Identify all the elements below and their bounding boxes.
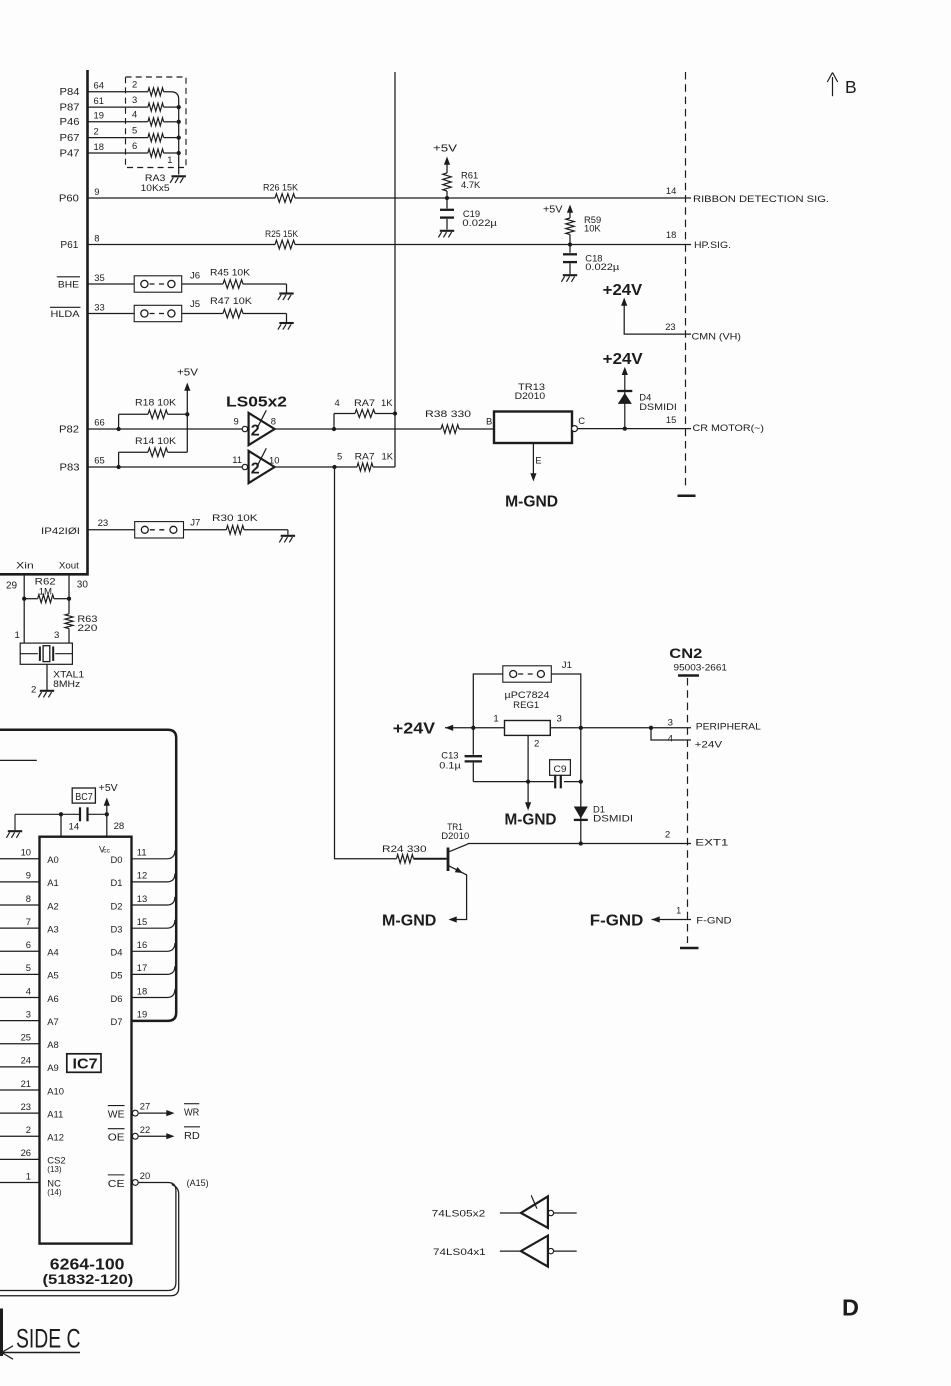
svg-text:5: 5 bbox=[337, 451, 342, 462]
net F-GND pin bbox=[696, 915, 732, 926]
svg-text:Xin: Xin bbox=[16, 561, 34, 572]
svg-text:P47: P47 bbox=[60, 148, 80, 159]
svg-text:2: 2 bbox=[534, 738, 539, 749]
label R47 10K bbox=[210, 295, 253, 306]
pin 20 of IC7 bbox=[140, 1170, 150, 1181]
net (A15) bbox=[187, 1177, 209, 1188]
svg-text:29: 29 bbox=[6, 581, 18, 592]
pin label CE bbox=[108, 1175, 125, 1190]
pin label CS2 (13) bbox=[47, 1154, 65, 1174]
wire address pin 7 bbox=[0, 927, 40, 929]
pin 23 CMN bbox=[665, 321, 675, 332]
pin 2 EXT1 bbox=[665, 829, 670, 840]
svg-text:D3: D3 bbox=[111, 923, 123, 934]
svg-text:D2: D2 bbox=[111, 900, 123, 911]
pin 18 of P47 bbox=[94, 141, 104, 152]
bar section boundary end bbox=[678, 494, 696, 497]
wire P61 to connector pin 18 bbox=[88, 244, 692, 246]
svg-text:7: 7 bbox=[26, 916, 31, 927]
svg-text:Xout: Xout bbox=[59, 561, 79, 572]
bar page edge bbox=[0, 1309, 3, 1357]
pin 1 of REG1 bbox=[493, 714, 498, 725]
node P87 bbox=[60, 103, 80, 114]
svg-text:5: 5 bbox=[132, 124, 137, 135]
label IP42I01 bbox=[41, 526, 80, 536]
svg-text:16: 16 bbox=[137, 939, 147, 950]
wire P87 to RA3 bbox=[88, 106, 179, 108]
net F-GND arrow bbox=[590, 912, 644, 929]
label C9 box bbox=[550, 760, 571, 776]
svg-text:RIBBON DETECTION SIG.: RIBBON DETECTION SIG. bbox=[693, 193, 829, 204]
net M-GND of TR13 bbox=[505, 493, 558, 510]
label IC7 box bbox=[67, 1054, 101, 1073]
wire address pin 21 bbox=[0, 1089, 40, 1091]
net WR bbox=[184, 1104, 200, 1119]
IC U IC7 6264 SRAM outline bbox=[40, 837, 132, 1244]
svg-text:26: 26 bbox=[21, 1147, 31, 1158]
resistor RA3 element 2 bbox=[148, 88, 164, 96]
junction RA3 common P46 bbox=[177, 120, 181, 124]
svg-text:P87: P87 bbox=[60, 103, 80, 114]
svg-text:C9: C9 bbox=[554, 764, 567, 775]
svg-text:8: 8 bbox=[271, 416, 276, 427]
svg-text:P60: P60 bbox=[59, 194, 80, 205]
resistor RA3 element 4 bbox=[148, 118, 164, 126]
op-amp inverter U2a 74LS05 bbox=[242, 410, 274, 445]
svg-text:220: 220 bbox=[77, 623, 97, 634]
ground C18 bbox=[561, 275, 577, 282]
svg-text:1: 1 bbox=[26, 1170, 31, 1181]
svg-text:A5: A5 bbox=[47, 970, 58, 981]
label R24 330 bbox=[382, 843, 427, 854]
svg-text:2: 2 bbox=[94, 125, 99, 136]
svg-text:P84: P84 bbox=[60, 87, 81, 98]
jumper J7 bbox=[135, 522, 184, 538]
svg-text:BHE: BHE bbox=[58, 279, 79, 290]
pin 6 of RA3 bbox=[132, 140, 137, 151]
svg-text:P46: P46 bbox=[60, 117, 81, 128]
wire address pin 8 bbox=[0, 904, 40, 906]
diode D1 DSMIDI bbox=[574, 807, 588, 820]
pin label D6 bbox=[111, 993, 123, 1004]
wire stub upper left bbox=[0, 759, 37, 761]
svg-text:9: 9 bbox=[94, 186, 99, 197]
junction pin14 BC7 bbox=[59, 812, 63, 816]
junction R18 +5V bbox=[185, 412, 189, 416]
op-amp inverter U2b 74LS05 bbox=[242, 448, 274, 483]
wire +24V to connector pin 23 bbox=[621, 298, 691, 335]
svg-text:3: 3 bbox=[668, 717, 673, 728]
svg-text:RA7: RA7 bbox=[355, 451, 375, 462]
wire U2a output to R38 bbox=[275, 428, 441, 430]
label LS05x2 bbox=[226, 393, 287, 410]
pin 9 of inverter U2a bbox=[234, 416, 239, 427]
pin 28 of IC7 bbox=[114, 821, 125, 832]
resistor R14 10K bbox=[148, 448, 168, 457]
marker arrow B bbox=[827, 73, 837, 97]
svg-text:EXT1: EXT1 bbox=[695, 837, 728, 848]
svg-text:23: 23 bbox=[665, 321, 675, 332]
wire P47 to RA3 bbox=[88, 152, 179, 154]
wire data pin 16 to bus bbox=[132, 943, 175, 951]
label R30 10K bbox=[212, 512, 259, 523]
pin 15 CR MOTOR bbox=[666, 414, 676, 425]
svg-text:CMN (VH): CMN (VH) bbox=[692, 330, 742, 341]
junction RA3 common P87 bbox=[177, 105, 181, 109]
wire R61 to P60 bbox=[446, 191, 448, 198]
svg-text:1: 1 bbox=[15, 630, 20, 641]
svg-text:8MHz: 8MHz bbox=[53, 679, 80, 690]
power +5V for R59 bbox=[543, 205, 573, 219]
pin 3 PERIPHERAL bbox=[668, 717, 673, 728]
svg-text:A9: A9 bbox=[47, 1062, 58, 1073]
svg-text:2: 2 bbox=[251, 460, 260, 477]
ground XTAL1 bbox=[38, 691, 54, 698]
svg-text:A2: A2 bbox=[47, 900, 58, 911]
svg-text:23: 23 bbox=[21, 1101, 31, 1112]
ground C19 bbox=[438, 231, 454, 238]
pin label A10 bbox=[47, 1085, 64, 1096]
label 5 RA7 1K bbox=[337, 451, 394, 462]
label R18 10K bbox=[135, 397, 177, 408]
power +24V output bbox=[393, 721, 436, 738]
wire OE to RD bbox=[132, 1133, 174, 1139]
pin label D0 bbox=[111, 854, 123, 865]
op-amp legend 74LS05 symbol bbox=[500, 1195, 577, 1228]
svg-text:66: 66 bbox=[94, 417, 104, 428]
net CMN (VH) bbox=[692, 330, 742, 341]
node P67 bbox=[60, 133, 80, 144]
svg-text:D1: D1 bbox=[111, 877, 123, 888]
pin 15 of IC7 bbox=[137, 916, 147, 927]
svg-text:8: 8 bbox=[94, 233, 99, 244]
svg-text:D6: D6 bbox=[111, 993, 123, 1004]
wire address pin 6 bbox=[0, 950, 40, 952]
label uPC7824 REG1 bbox=[505, 689, 550, 710]
outline RA3 dashed box bbox=[126, 77, 187, 168]
power +5V for R18 R14 bbox=[177, 368, 199, 453]
svg-text:J6: J6 bbox=[190, 270, 200, 281]
label R25 15K bbox=[265, 228, 299, 239]
svg-text:R38 330: R38 330 bbox=[425, 408, 471, 419]
pin 2 of IC7 bbox=[26, 1124, 31, 1135]
pin label D1 bbox=[111, 877, 123, 888]
wire XTAL to ground bbox=[46, 664, 48, 690]
label J6 bbox=[190, 270, 200, 281]
svg-text:D2010: D2010 bbox=[441, 830, 469, 841]
wire RA7-5 to bus bbox=[373, 466, 395, 468]
svg-text:+5V: +5V bbox=[433, 144, 458, 155]
power +5V for R61 bbox=[433, 144, 458, 174]
svg-text:3: 3 bbox=[132, 94, 137, 105]
ground R47 bbox=[278, 323, 294, 330]
label 4 RA7 1K bbox=[335, 397, 394, 408]
svg-text:(13): (13) bbox=[47, 1165, 62, 1174]
pin 18 of IC7 bbox=[137, 985, 147, 996]
junction R62 Xin bbox=[22, 597, 26, 601]
junction R59 P61 bbox=[568, 242, 572, 246]
svg-text:IC7: IC7 bbox=[73, 1056, 98, 1073]
svg-text:6: 6 bbox=[132, 140, 137, 151]
wire R62 leads bbox=[24, 598, 69, 600]
svg-text:P83: P83 bbox=[60, 462, 81, 473]
resistor R61 4.7K bbox=[443, 173, 451, 191]
wire CN2 dashed boundary bbox=[687, 678, 689, 943]
label D4 DSMIDI bbox=[639, 392, 677, 412]
junction U2b out to TR1 drop bbox=[332, 465, 336, 469]
svg-text:8: 8 bbox=[26, 893, 31, 904]
label R63 220 bbox=[77, 614, 97, 634]
resistor R18 10K bbox=[148, 410, 168, 419]
pin 23 of IP42101 bbox=[98, 518, 109, 529]
svg-text:19: 19 bbox=[137, 1008, 147, 1019]
svg-text:74LS04x1: 74LS04x1 bbox=[433, 1247, 486, 1258]
wire R63 to XTAL bbox=[68, 629, 70, 644]
wire R24 to TR1 base bbox=[414, 858, 447, 860]
resistor R45 10K bbox=[223, 280, 243, 289]
svg-text:A8: A8 bbox=[47, 1039, 58, 1050]
wire P60 to connector pin 14 bbox=[88, 197, 692, 199]
svg-text:P61: P61 bbox=[60, 240, 78, 251]
label R61 4.7K bbox=[461, 170, 481, 190]
junction J1 C13 +24V bbox=[471, 726, 475, 730]
svg-text:RA7: RA7 bbox=[354, 397, 375, 408]
jumper J5 bbox=[134, 305, 182, 321]
svg-text:HLDA: HLDA bbox=[51, 309, 81, 320]
svg-text:3: 3 bbox=[557, 714, 562, 725]
pin label D7 bbox=[111, 1016, 123, 1027]
pin 6 of IC7 bbox=[26, 939, 31, 950]
pin 13 of IC7 bbox=[137, 893, 147, 904]
pin 21 of IC7 bbox=[21, 1078, 31, 1089]
pin 11 of inverter U2b bbox=[232, 454, 242, 465]
pin label D3 bbox=[111, 923, 123, 934]
svg-text:D: D bbox=[842, 1295, 859, 1321]
pin label A1 bbox=[47, 877, 58, 888]
svg-text:PERIPHERAL: PERIPHERAL bbox=[696, 721, 761, 732]
svg-text:A12: A12 bbox=[47, 1132, 64, 1143]
svg-text:33: 33 bbox=[94, 302, 104, 313]
svg-text:24: 24 bbox=[21, 1055, 31, 1066]
svg-text:cc: cc bbox=[103, 847, 110, 854]
pin 1 of XTAL1 bbox=[15, 630, 20, 641]
net HP.SIG. bbox=[694, 239, 731, 250]
wire J1 left leg bbox=[473, 674, 503, 728]
svg-text:9: 9 bbox=[26, 870, 31, 881]
wire U2b output down to R24 bbox=[335, 467, 397, 859]
marker SIDE C arrow bbox=[2, 1346, 80, 1359]
svg-text:A7: A7 bbox=[47, 1016, 58, 1027]
svg-text:E: E bbox=[535, 455, 541, 466]
svg-text:HP.SIG.: HP.SIG. bbox=[694, 239, 731, 250]
label RA3 bbox=[145, 172, 166, 183]
wire address pin 26 bbox=[0, 1158, 40, 1160]
resistor RA3 element 3 bbox=[148, 103, 164, 111]
svg-text:21: 21 bbox=[21, 1078, 31, 1089]
pin 1 F-GND bbox=[676, 906, 681, 916]
wire Xin leg bbox=[23, 576, 25, 644]
ground RA3 bbox=[170, 176, 186, 183]
svg-text:2: 2 bbox=[26, 1124, 31, 1135]
svg-text:15: 15 bbox=[137, 916, 147, 927]
capacitor C19 0.022u bbox=[440, 198, 454, 230]
label C19 0.022u bbox=[462, 208, 497, 228]
node BHE bbox=[57, 277, 80, 291]
svg-text:10Kx5: 10Kx5 bbox=[141, 182, 170, 193]
capacitor C18 0.022u bbox=[563, 245, 577, 275]
junction P82 R18 bbox=[116, 427, 120, 431]
label CN2 part 95003-2661 bbox=[674, 663, 728, 673]
label R26 15K bbox=[263, 182, 299, 193]
junction R61 P60 bbox=[445, 196, 449, 200]
svg-text:61: 61 bbox=[94, 95, 104, 106]
svg-text:4: 4 bbox=[26, 985, 31, 996]
pin 61 of P87 bbox=[94, 95, 104, 106]
pin 2 of RA3 bbox=[132, 79, 137, 90]
pin label OE bbox=[108, 1129, 125, 1144]
svg-text:1: 1 bbox=[676, 906, 681, 916]
pin 30 of Xout bbox=[77, 580, 89, 591]
svg-text:12: 12 bbox=[137, 870, 147, 881]
svg-text:1K: 1K bbox=[382, 451, 394, 462]
svg-text:18: 18 bbox=[666, 229, 676, 240]
wire TR13 collector to connector pin 15 bbox=[578, 428, 692, 430]
pin label A2 bbox=[47, 900, 58, 911]
svg-text:4: 4 bbox=[335, 397, 340, 408]
svg-text:27: 27 bbox=[140, 1101, 150, 1112]
node P82 bbox=[59, 424, 79, 435]
wire data pin 13 to bus bbox=[132, 897, 175, 905]
pin 3 of RA3 bbox=[132, 94, 137, 105]
svg-text:R30 10K: R30 10K bbox=[212, 512, 259, 523]
svg-text:10: 10 bbox=[21, 847, 31, 858]
svg-text:A10: A10 bbox=[47, 1085, 64, 1096]
svg-text:4.7K: 4.7K bbox=[461, 179, 481, 190]
junction pin28 +5V bbox=[105, 812, 109, 816]
wire TR1 collector EXT1 bbox=[468, 843, 691, 845]
svg-text:A1: A1 bbox=[47, 877, 58, 888]
pin label A6 bbox=[47, 993, 58, 1004]
wire C9 to D1 bbox=[564, 781, 581, 783]
wire REG1 pin3 to connector bbox=[550, 727, 691, 729]
pin 27 of IC7 bbox=[140, 1101, 150, 1112]
svg-text:30: 30 bbox=[77, 580, 89, 591]
wire address pin 5 bbox=[0, 973, 40, 975]
pin 26 of IC7 bbox=[21, 1147, 31, 1158]
svg-text:C: C bbox=[578, 415, 585, 426]
label 74LS05x2 bbox=[432, 1208, 486, 1219]
wire data pin 17 to bus bbox=[132, 966, 175, 974]
resistor R38 330 bbox=[441, 425, 459, 434]
node P60 bbox=[59, 194, 80, 205]
svg-text:R47 10K: R47 10K bbox=[210, 295, 253, 306]
pin label A12 bbox=[47, 1132, 64, 1143]
wire RA3 common bbox=[164, 92, 179, 175]
op-amp legend 74LS04 symbol bbox=[500, 1236, 577, 1267]
svg-text:CR MOTOR(~): CR MOTOR(~) bbox=[693, 422, 765, 433]
svg-text:F-GND: F-GND bbox=[590, 912, 644, 929]
svg-text:22: 22 bbox=[140, 1124, 150, 1135]
svg-text:(51832-120): (51832-120) bbox=[43, 1271, 134, 1287]
wire J5 to R47 bbox=[182, 313, 223, 315]
pin label A5 bbox=[47, 970, 58, 981]
wire peripheral +24V pin 4 bbox=[651, 728, 691, 740]
svg-text:4: 4 bbox=[668, 734, 674, 745]
svg-text:2: 2 bbox=[132, 79, 137, 90]
pin 14 RIBBON bbox=[666, 185, 676, 196]
capacitor BC7 bypass bbox=[80, 807, 88, 821]
ground R45 bbox=[278, 294, 294, 301]
wire M-GND arrow of REG1 bbox=[525, 782, 531, 811]
label BC7 box bbox=[72, 788, 95, 803]
svg-text:CS2: CS2 bbox=[47, 1154, 65, 1165]
pin label WE bbox=[108, 1106, 125, 1121]
pin E of TR13 bbox=[535, 455, 541, 466]
pin C of TR13 bbox=[578, 415, 585, 426]
pin 7 of IC7 bbox=[26, 916, 31, 927]
pin label A4 bbox=[47, 947, 58, 958]
junction RA3 common P67 bbox=[177, 135, 181, 139]
node P61 bbox=[60, 240, 78, 251]
wire J1 right leg to D1 bbox=[551, 674, 581, 844]
wire R30 to ground bbox=[244, 530, 288, 535]
wire data pin 15 to bus bbox=[132, 920, 175, 928]
wire WE to WR bbox=[132, 1110, 174, 1116]
pin 35 of BHE bbox=[94, 272, 104, 283]
bar CN2 bottom bbox=[680, 947, 699, 949]
wire pin14 ground line bbox=[15, 814, 80, 830]
svg-text:9: 9 bbox=[234, 416, 239, 427]
label TR13 D2010 bbox=[515, 381, 546, 401]
wire address pin 4 bbox=[0, 997, 40, 999]
svg-text:R45 10K: R45 10K bbox=[210, 267, 251, 278]
pin 12 of IC7 bbox=[137, 870, 147, 881]
node P46 bbox=[60, 117, 81, 128]
svg-text:5: 5 bbox=[26, 962, 31, 973]
wire Xout leg upper bbox=[68, 576, 70, 614]
power +5V at IC7 bbox=[99, 783, 118, 814]
pin 8 of P61 bbox=[94, 233, 99, 244]
resistor R24 330 bbox=[397, 854, 414, 863]
capacitor C13 0.1u bbox=[465, 728, 482, 782]
wire data bus loop bbox=[0, 730, 176, 1021]
wire BC7 to +5V node bbox=[88, 813, 107, 815]
svg-text:A6: A6 bbox=[47, 993, 58, 1004]
svg-text:14: 14 bbox=[69, 822, 80, 833]
wire address pin 25 bbox=[0, 1043, 40, 1045]
wire R38 to TR13 base bbox=[459, 428, 494, 430]
label R38 330 bbox=[425, 408, 471, 419]
wire R59 to P61 bbox=[569, 235, 571, 245]
pin 4 of IC7 bbox=[26, 985, 31, 996]
net M-GND of TR1 bbox=[382, 913, 436, 930]
svg-text:D7: D7 bbox=[111, 1016, 123, 1027]
svg-text:35: 35 bbox=[94, 272, 104, 283]
svg-text:IP42IØI: IP42IØI bbox=[41, 526, 80, 536]
wire CE to A15 loop bbox=[0, 1180, 179, 1296]
bar CN2 top bbox=[678, 674, 699, 676]
junction peripheral pin4 bbox=[649, 726, 653, 730]
svg-text:R24 330: R24 330 bbox=[382, 843, 427, 854]
pin label D5 bbox=[111, 970, 123, 981]
pin 23 of IC7 bbox=[21, 1101, 31, 1112]
svg-text:SIDE C: SIDE C bbox=[16, 1324, 81, 1354]
pin 2 of XTAL1 bbox=[31, 685, 36, 696]
svg-text:+24V: +24V bbox=[393, 721, 436, 738]
pin label A8 bbox=[47, 1039, 58, 1050]
node Xout bbox=[59, 561, 79, 572]
wire TR13 emitter to M-GND bbox=[530, 443, 536, 482]
